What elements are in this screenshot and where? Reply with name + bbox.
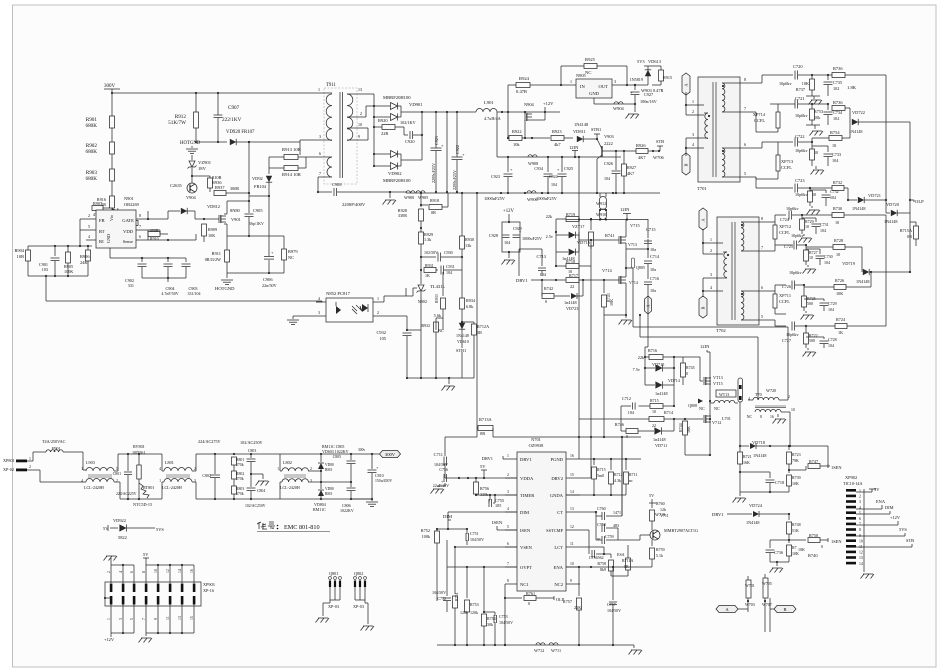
svg-text:10K: 10K — [792, 481, 799, 486]
svg-text:8: 8 — [142, 571, 146, 573]
svg-text:DRV1: DRV1 — [712, 512, 724, 517]
svg-text:R979: R979 — [288, 249, 298, 254]
svg-text:1: 1 — [159, 479, 161, 483]
svg-text:W910: W910 — [596, 212, 606, 217]
svg-text:NC2: NC2 — [554, 582, 563, 587]
svg-text:300V: 300V — [104, 84, 116, 89]
svg-text:T911: T911 — [326, 83, 337, 88]
svg-text:RT801: RT801 — [143, 485, 154, 490]
svg-text:483: 483 — [613, 523, 619, 528]
svg-text:104: 104 — [824, 260, 830, 265]
transformer T911 primary — [300, 87, 332, 142]
svg-text:XP801: XP801 — [3, 458, 15, 463]
svg-text:ENA: ENA — [876, 499, 886, 504]
resistor R912 — [168, 93, 198, 142]
svg-text:GNDA: GNDA — [550, 493, 564, 498]
svg-text:B: B — [783, 607, 786, 612]
svg-text:CT: CT — [557, 510, 563, 515]
wire c716 to r716 — [645, 298, 648, 357]
svg-text:4k7: 4k7 — [554, 142, 561, 147]
capacitor C932 105 — [376, 330, 411, 379]
diode VD610 — [456, 323, 469, 378]
svg-text:14: 14 — [570, 490, 574, 494]
resistor R716 22k — [638, 348, 675, 360]
svg-text:Q802: Q802 — [354, 571, 363, 576]
resistor R736b — [832, 100, 850, 111]
svg-text:5.1k: 5.1k — [656, 553, 663, 558]
inductor WT13 — [710, 390, 738, 411]
bridge diode VD804 — [313, 481, 334, 512]
transformer T911 aux — [317, 151, 332, 193]
svg-text:R925: R925 — [585, 57, 596, 62]
svg-text:2: 2 — [788, 395, 790, 399]
svg-text:V714: V714 — [602, 268, 613, 273]
svg-text:C712: C712 — [622, 396, 631, 401]
svg-text:224/AC275V: 224/AC275V — [198, 439, 221, 444]
wire nc1 — [504, 584, 506, 599]
ground c928 — [502, 252, 516, 265]
wire xp903 top gnd — [111, 558, 134, 575]
svg-text:C714: C714 — [650, 254, 660, 259]
wire rail mid — [446, 112, 448, 193]
node 300V — [104, 84, 120, 94]
svg-text:10K: 10K — [836, 291, 843, 296]
resistor R926 4K7 — [636, 143, 660, 160]
wire mid vertical c — [603, 315, 605, 437]
resistor R715A 0R — [900, 222, 919, 246]
capacitor C810 150u450V — [351, 454, 392, 500]
diode VD723 — [560, 280, 583, 311]
jumper W903 — [641, 85, 664, 93]
svg-text:51K: 51K — [792, 528, 799, 533]
svg-text:R934: R934 — [466, 298, 476, 303]
resistor R712 4.3k — [609, 458, 623, 495]
wire sec out13 — [360, 94, 374, 117]
varistor RV801 — [132, 444, 146, 499]
svg-text:R759: R759 — [656, 547, 665, 552]
resistor R903 — [85, 154, 114, 182]
svg-text:2: 2 — [377, 310, 379, 315]
capacitor C730 — [806, 249, 833, 265]
wire fb left — [79, 219, 86, 247]
resistor R730 — [802, 206, 886, 225]
transformer T701 body — [697, 77, 740, 191]
capacitor C711 — [434, 437, 460, 478]
svg-text:8: 8 — [744, 77, 746, 82]
capacitor C922 — [452, 112, 466, 193]
wire l903 out — [114, 454, 120, 499]
svg-text:T70: T70 — [755, 392, 762, 397]
capacitor C901 103 — [39, 246, 60, 276]
svg-text:15: 15 — [570, 473, 574, 477]
svg-text:0.47R: 0.47R — [516, 89, 528, 94]
svg-text:R932: R932 — [421, 323, 430, 328]
svg-text:104: 104 — [820, 228, 826, 233]
capacitor C928 C929 block — [489, 221, 542, 253]
resistor R937 300R — [214, 185, 249, 196]
svg-text:1: 1 — [859, 489, 861, 493]
jumper W712 W711 — [534, 643, 561, 653]
transistor V711 — [618, 528, 698, 540]
transformer T702 body — [716, 217, 759, 333]
svg-text:VD902: VD902 — [388, 171, 402, 176]
svg-text:R745: R745 — [686, 365, 695, 370]
wire main gnd bus — [406, 192, 660, 194]
svg-text:3: 3 — [614, 79, 616, 84]
wire tl431 bus — [406, 296, 421, 378]
svg-text:R7: R7 — [792, 545, 797, 550]
label 102AC250V a — [240, 440, 263, 445]
svg-text:22K: 22K — [574, 605, 581, 610]
svg-text:104/50V: 104/50V — [432, 590, 446, 595]
ground vd718 — [733, 492, 747, 503]
capacitor C758 — [596, 512, 619, 540]
capacitor C736 — [766, 540, 790, 563]
capacitor C732 — [810, 189, 839, 206]
svg-text:10K: 10K — [208, 233, 215, 238]
capacitor C906 — [227, 215, 284, 288]
resistor R923 4k7 — [532, 129, 573, 147]
resistor R7xx row3 — [810, 142, 819, 166]
svg-text:MBRF20H100: MBRF20H100 — [383, 178, 411, 183]
mosfet V712 low — [699, 406, 721, 425]
resistor R924 — [516, 76, 562, 94]
label W707 — [762, 598, 772, 632]
wire to R924 — [508, 85, 516, 112]
resistor R907 47R — [92, 201, 110, 217]
wire fb — [248, 192, 250, 201]
wire vd718 to xp — [789, 446, 828, 466]
svg-text:R717: R717 — [569, 273, 578, 278]
svg-text:R913 10R: R913 10R — [282, 147, 302, 152]
svg-text:N905: N905 — [576, 73, 587, 78]
svg-text:8: 8 — [859, 528, 861, 532]
diode VD716 1n4148 — [556, 235, 579, 261]
svg-text:R920: R920 — [378, 118, 388, 123]
svg-text:R914 10R: R914 10R — [282, 172, 302, 177]
resistor R727 — [804, 245, 818, 265]
label Q808 — [688, 399, 703, 409]
svg-text:DIM: DIM — [520, 510, 529, 515]
svg-text:N852 PC817: N852 PC817 — [326, 291, 351, 296]
wire t701 left — [685, 92, 704, 156]
svg-text:N901: N901 — [124, 196, 134, 201]
svg-text:RM1: RM1 — [325, 468, 333, 472]
svg-text:331/104: 331/104 — [187, 291, 200, 296]
ground ac earth — [251, 474, 269, 486]
svg-text:IN: IN — [580, 84, 586, 89]
svg-text:VD922: VD922 — [113, 518, 126, 523]
label DRV1 n701 — [482, 456, 505, 461]
svg-text:R915: R915 — [663, 75, 672, 80]
resistor R715 5m0 — [580, 458, 641, 495]
svg-text:STB: STB — [906, 538, 914, 543]
svg-text:V904: V904 — [186, 195, 197, 200]
resistor R936 910R — [192, 175, 222, 192]
svg-text:W703: W703 — [745, 602, 755, 607]
svg-text:104: 104 — [828, 307, 834, 312]
wire gnd bus main — [352, 191, 406, 193]
svg-text:C932: C932 — [376, 330, 386, 335]
resistor chain R802 — [232, 471, 245, 486]
svg-text:R736: R736 — [833, 66, 843, 71]
ground w904 — [626, 104, 640, 119]
svg-text:W701: W701 — [745, 583, 755, 588]
svg-text:N904: N904 — [524, 102, 535, 107]
svg-text:C721: C721 — [795, 96, 805, 101]
svg-text:L701: L701 — [722, 416, 731, 421]
svg-text:102: 102 — [833, 116, 839, 121]
svg-text:LCL-2420H: LCL-2420H — [84, 485, 104, 490]
svg-text:L901: L901 — [484, 100, 494, 105]
svg-text:R740: R740 — [808, 553, 818, 558]
svg-text:1SEN: 1SEN — [831, 539, 842, 544]
tag B bottom — [770, 606, 796, 613]
capacitor C728 — [806, 337, 837, 348]
svg-text:5V: 5V — [649, 493, 654, 498]
svg-text:R904: R904 — [14, 248, 24, 253]
svg-text:3: 3 — [859, 500, 861, 504]
tl431 TL431L — [413, 270, 446, 302]
svg-text:VD721: VD721 — [868, 193, 881, 198]
svg-text:10: 10 — [812, 192, 816, 197]
wire c716 down — [647, 296, 649, 298]
svg-text:5m0: 5m0 — [597, 473, 604, 478]
svg-text:C753: C753 — [499, 614, 508, 619]
connector XP712 — [773, 222, 791, 245]
svg-text:10: 10 — [805, 224, 809, 229]
svg-text:B: B — [701, 306, 706, 309]
svg-text:10R: 10R — [17, 254, 24, 259]
svg-text:12IN: 12IN — [569, 145, 579, 150]
svg-text:270k: 270k — [236, 492, 244, 496]
wire left cluster top — [28, 230, 92, 247]
svg-text:XP711: XP711 — [779, 293, 791, 298]
svg-text:10: 10 — [791, 408, 795, 412]
svg-text:VD80: VD80 — [325, 487, 334, 491]
core t70x — [755, 406, 786, 408]
wire sense — [148, 234, 196, 241]
resistor R905 100K — [64, 246, 73, 276]
svg-text:Q808: Q808 — [688, 403, 697, 408]
svg-text:R756: R756 — [480, 486, 489, 491]
svg-text:EMC 801-810: EMC 801-810 — [284, 524, 320, 531]
ground xp902 — [861, 569, 875, 579]
resistor R758 8k9 — [597, 554, 613, 576]
svg-text:C751: C751 — [470, 531, 479, 536]
svg-text:VD92: VD92 — [252, 176, 263, 181]
zener VZ717 — [546, 224, 591, 245]
svg-text:22n/50V: 22n/50V — [262, 283, 277, 288]
svg-text:VSEN: VSEN — [520, 545, 533, 550]
svg-text:2: 2 — [310, 467, 312, 471]
svg-text:1: 1 — [692, 99, 694, 104]
svg-text:C720: C720 — [793, 64, 803, 69]
wire xp903 bottom 12v — [104, 612, 134, 642]
svg-text:C908: C908 — [332, 182, 342, 187]
svg-text:R716: R716 — [648, 348, 657, 353]
svg-text:6.8k: 6.8k — [466, 304, 474, 309]
resistor R751 120k — [453, 547, 469, 645]
wire ac rail top b — [196, 453, 280, 455]
svg-text:+12V: +12V — [104, 637, 115, 642]
svg-text:6: 6 — [319, 151, 321, 156]
svg-text:10: 10 — [154, 569, 158, 573]
svg-text:VDD: VDD — [123, 229, 134, 234]
svg-text:C756562: C756562 — [589, 555, 604, 560]
svg-text:10: 10 — [859, 539, 863, 543]
svg-text:8: 8 — [760, 415, 762, 419]
capacitor C752 — [432, 540, 451, 612]
resistor R904 10R — [14, 246, 30, 276]
svg-text:R741: R741 — [605, 233, 615, 238]
capacitor C907 — [214, 93, 242, 142]
svg-text:XP713: XP713 — [781, 159, 794, 164]
svg-text:7: 7 — [319, 171, 321, 176]
svg-text:VD80: VD80 — [325, 463, 334, 467]
wire t701 pin8 — [736, 75, 770, 83]
fuse F901 — [33, 439, 86, 470]
svg-text:NC: NC — [288, 255, 294, 260]
wire pin10 — [360, 128, 368, 140]
svg-text:MMBT2907ALT1G: MMBT2907ALT1G — [664, 528, 698, 533]
svg-text:W904: W904 — [613, 106, 625, 111]
svg-text:680R: 680R — [150, 228, 159, 233]
svg-text:ISEN: ISEN — [520, 528, 531, 533]
svg-text:R937: R937 — [215, 185, 225, 190]
ground c711 — [431, 486, 445, 494]
svg-text:1: 1 — [318, 87, 320, 92]
svg-text:1N4148: 1N4148 — [574, 122, 589, 127]
svg-text:10a: 10a — [650, 288, 656, 293]
resistor R737 10K — [796, 75, 820, 96]
resistor R746 0 — [615, 406, 652, 439]
capacitor C733 — [812, 146, 841, 166]
svg-text:1SEN: 1SEN — [831, 465, 842, 470]
wire mid vertical b — [590, 266, 592, 437]
wire t702 pin8 — [755, 215, 786, 222]
svg-text:2: 2 — [692, 109, 694, 114]
wire r926 node — [617, 150, 636, 152]
resistor R735 row4 — [808, 188, 817, 206]
svg-text:13: 13 — [358, 87, 362, 92]
regulator N905 — [561, 73, 628, 104]
svg-text:HOTGND: HOTGND — [215, 286, 235, 291]
svg-text:C804: C804 — [257, 489, 265, 493]
svg-text:104: 104 — [540, 272, 547, 277]
mosfet V713 high — [683, 357, 723, 386]
svg-text:10: 10 — [832, 143, 836, 148]
svg-text:0R: 0R — [907, 234, 912, 239]
svg-text:C724: C724 — [780, 217, 790, 222]
svg-text:DIM: DIM — [443, 514, 452, 519]
ground HOTGND2 — [215, 280, 235, 291]
svg-text:4: 4 — [692, 142, 694, 147]
wire sec left rail — [373, 105, 375, 167]
capacitor C722 — [770, 134, 813, 153]
svg-text:13: 13 — [859, 556, 863, 560]
wire ac rail bot b — [196, 498, 280, 500]
diode VD718 — [740, 440, 790, 458]
wire out bus — [404, 111, 476, 113]
svg-text:5V3: 5V3 — [637, 59, 645, 64]
label 12IN balance — [700, 344, 710, 352]
wire drv2 — [580, 437, 591, 478]
svg-text:8: 8 — [139, 213, 141, 218]
filter L802 — [277, 454, 352, 499]
svg-text:C716: C716 — [650, 276, 659, 281]
svg-text:2: 2 — [29, 465, 31, 469]
svg-text:1.3k: 1.3k — [424, 237, 432, 242]
svg-text:12IN: 12IN — [620, 207, 630, 212]
svg-text:C732: C732 — [830, 189, 839, 194]
resistor R736a — [828, 66, 886, 200]
resistor R756 330k — [474, 478, 490, 497]
resistor R761 0 — [505, 591, 565, 606]
wire n904 gate — [524, 120, 526, 139]
svg-text:C759: C759 — [605, 534, 614, 539]
svg-text:8N80: 8N80 — [230, 208, 241, 213]
svg-text:100n/16V: 100n/16V — [640, 99, 657, 104]
ic N701 left pins — [505, 454, 517, 584]
label ENA xp902 — [856, 499, 886, 509]
wire under ic — [110, 248, 186, 259]
diode VD717 1n4148 — [645, 357, 674, 396]
ground row2 — [810, 125, 824, 136]
ground hotgnd top — [186, 146, 198, 153]
svg-text:2: 2 — [507, 473, 509, 477]
svg-text:R742: R742 — [544, 286, 553, 291]
svg-text:VD720: VD720 — [886, 202, 900, 207]
wire x477 vertical — [476, 193, 478, 428]
resistor R711 nc — [624, 458, 638, 495]
svg-text:102: 102 — [833, 86, 839, 91]
wire mid vertical d — [621, 437, 623, 516]
capacitor C753 — [483, 611, 513, 645]
capacitor C805b — [333, 454, 356, 482]
svg-text:9: 9 — [358, 134, 360, 139]
svg-text:DRV1: DRV1 — [520, 457, 532, 462]
diode VD902 MBRF20H100 — [374, 112, 422, 183]
svg-text:11: 11 — [570, 542, 574, 546]
resistor R934 6.8k — [460, 270, 476, 322]
wire dim row — [447, 512, 517, 530]
svg-text:102/AC250V: 102/AC250V — [240, 440, 263, 445]
svg-text:R747: R747 — [809, 459, 818, 464]
ground opto — [287, 316, 316, 324]
svg-text:5V: 5V — [143, 552, 149, 557]
svg-text:NTC5D-15: NTC5D-15 — [133, 502, 152, 507]
wire t702 pin7 — [755, 245, 775, 251]
svg-text:C756: C756 — [439, 467, 448, 472]
svg-text:C925: C925 — [564, 166, 573, 171]
capacitor C908 — [318, 182, 366, 207]
svg-text:104: 104 — [446, 270, 452, 275]
svg-text:C760: C760 — [597, 506, 606, 511]
svg-text:10: 10 — [835, 220, 839, 225]
jumper W906 — [527, 191, 539, 202]
wire t702 left — [702, 229, 723, 297]
filter L801 — [159, 454, 196, 499]
svg-text:DRV1: DRV1 — [516, 278, 528, 283]
inductor W720 T70x — [748, 388, 790, 401]
diode VD811 — [573, 122, 601, 142]
capacitor C930 — [421, 250, 463, 262]
svg-text:104: 104 — [551, 182, 557, 187]
svg-text:C722: C722 — [795, 134, 805, 139]
svg-text:R803: R803 — [236, 487, 244, 491]
ground w720 — [773, 414, 787, 424]
